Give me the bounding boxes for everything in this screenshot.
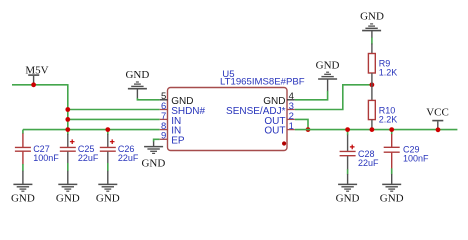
ground R9 top [360,10,384,38]
wire pin9 to gnd [154,139,160,141]
svg-text:GND: GND [11,193,35,205]
svg-text:22uF: 22uF [358,158,379,168]
ground C27 [11,171,35,205]
svg-text:GND: GND [316,59,340,71]
pin 3 SENSE/ADJ* [226,101,295,117]
wire C28 gnd stub [347,169,349,174]
wire pin4 to gnd [295,91,328,100]
svg-text:VCC: VCC [426,106,449,118]
wire M5V horizontal [12,84,68,86]
pin 9 EP [160,131,185,147]
capacitor C25 [60,134,99,164]
svg-text:100nF: 100nF [403,153,429,163]
wire IN row pin7 [68,118,160,120]
wire C26 gnd stub [107,163,109,171]
wire C29 gnd stub [391,168,393,174]
wire SHDN row [68,109,160,111]
svg-text:LT1965IMS8E#PBF: LT1965IMS8E#PBF [220,77,305,88]
junction SHDN [65,107,70,112]
junction C29 [389,127,394,132]
svg-text:GND: GND [141,157,165,169]
ground C26 [96,171,120,205]
wire pin5 to gnd [137,98,159,100]
op-amp U5 regulator body [168,69,305,151]
pin 1 OUT [264,121,294,137]
svg-text:OUT: OUT [264,126,285,137]
pin 5 GND [160,91,194,107]
svg-text:GND: GND [360,10,384,22]
junction adj node [370,82,375,87]
ground C28 [336,174,360,205]
capacitor C28 [340,130,379,170]
wire IN row pin8 [23,130,160,134]
junction IN8 [65,127,70,132]
svg-text:22uF: 22uF [78,153,99,163]
svg-text:GND: GND [336,193,360,205]
svg-text:1: 1 [289,121,294,132]
pin 2 OUT [264,111,294,127]
ground U5 pin5 [125,69,149,98]
resistor R10 [368,85,397,130]
ground U5 EP [141,141,165,169]
pin 7 IN [160,111,182,127]
wire pin3 to adj node [295,85,372,110]
capacitor C26 [100,134,139,164]
svg-text:9: 9 [161,131,166,142]
wire C27 gnd stub [22,164,24,171]
svg-text:GND: GND [96,193,120,205]
ground C25 [56,171,80,205]
junction IN7 [65,117,70,122]
svg-text:GND: GND [380,193,404,205]
ground C29 [380,174,404,205]
wire output rail [295,129,458,131]
pin 6 SHDN# [160,101,206,117]
power symbol VCC [426,106,449,129]
svg-text:1.2K: 1.2K [379,67,398,77]
svg-text:GND: GND [56,193,80,205]
svg-text:EP: EP [171,136,185,147]
pin 4 GND [263,91,295,107]
wire M5V vertical feed [67,84,69,135]
svg-text:GND: GND [125,69,149,81]
wire gnd to R9 [371,38,373,45]
junction R10 out [370,127,375,132]
power symbol M5V [25,65,48,85]
ground U5 pin4 [316,59,340,91]
junction M5V [31,82,36,87]
wire C25 gnd stub [67,163,69,171]
junction VCC [436,127,441,132]
pin 8 IN [160,121,182,137]
junction pin2 out [306,127,311,132]
capacitor C29 [384,130,429,169]
svg-text:100nF: 100nF [33,153,59,163]
svg-text:2.2K: 2.2K [379,114,398,124]
wire pin2 to out [295,119,308,129]
junction C26 [105,127,110,132]
resistor R9 [368,44,397,85]
wire C26 drop [107,130,109,135]
junction C28 [345,127,350,132]
capacitor C27 [15,133,59,164]
svg-text:22uF: 22uF [118,153,139,163]
